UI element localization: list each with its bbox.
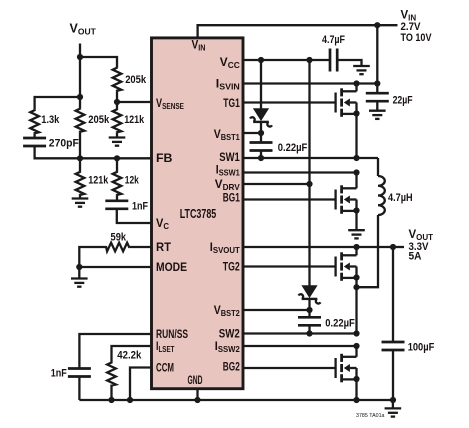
wire SW1 (244, 157, 378, 159)
wire 121k to ground (116, 102, 118, 109)
wire to 205k top resistor (80, 57, 117, 67)
svg-text:205k: 205k (125, 74, 147, 86)
capacitor C3 1nF (lower) (68, 369, 91, 377)
wire stub to VOUT label (393, 246, 404, 248)
wire RUN/SS to 1nF (79, 334, 150, 369)
resistor R6 12k (113, 171, 122, 195)
node MODE junction (76, 264, 82, 270)
node VDRV junction (306, 181, 312, 187)
node ISVIN-Q1 junction (353, 80, 359, 86)
svg-text:TG1: TG1 (223, 96, 240, 110)
wire rail end to ground (392, 400, 394, 408)
wire ISSW2 (244, 345, 357, 347)
node VOUT/205k junction (77, 54, 83, 60)
node 100uF rail junction (390, 397, 396, 403)
node CCM rail junction (127, 397, 133, 403)
node VCC-D1 junction (258, 57, 264, 63)
node SW2-C7 junction (306, 330, 312, 336)
svg-text:1.3k: 1.3k (41, 114, 60, 126)
wire 59k left to MODE node (79, 247, 105, 267)
capacitor C7 0.22uF (298, 317, 321, 325)
wire BG2 to gate (244, 367, 336, 369)
svg-text:22µF: 22µF (393, 95, 413, 107)
inductor L1 4.7uH (378, 176, 385, 215)
wire Q3 drain down to SW2 (355, 278, 357, 334)
wire 42.2k to rail (110, 386, 112, 400)
wire SW2 (244, 332, 357, 334)
svg-text:RT: RT (156, 240, 172, 254)
svg-text:3785 TA01a: 3785 TA01a (356, 413, 385, 419)
wire top rail stub to VIN label (377, 24, 397, 26)
node divider mid junction (77, 94, 83, 100)
capacitor C6 0.22uF (250, 143, 273, 151)
wire ISVOUT (244, 246, 393, 248)
wire MODE to IC (79, 266, 150, 268)
ground below 121k lower (72, 199, 89, 207)
wire ISSW1 (244, 171, 357, 173)
node VSENSE junction (114, 99, 120, 105)
wire 22uF to ground (376, 101, 378, 111)
wire MODE node to ground (78, 267, 80, 279)
svg-text:TO 10V: TO 10V (401, 32, 433, 44)
ground for 4.7uF (353, 66, 370, 74)
wire 4.7uF to ground (337, 60, 361, 66)
resistor R3 1.3k (30, 110, 39, 134)
wire VOUT down to divider (79, 44, 81, 98)
capacitor C8 100uF (382, 342, 405, 350)
transistor Q2 BG1 NMOS (336, 185, 360, 214)
wire FB to IC (80, 157, 150, 159)
wire VCC column down to D2 (308, 60, 310, 286)
svg-text:42.2k: 42.2k (117, 350, 142, 362)
wire CCM to rail (130, 368, 150, 401)
capacitor C5 22uF (366, 93, 389, 101)
wire node to 1.3k branch (35, 97, 80, 110)
wire VCC to 4.7uF (244, 59, 330, 61)
wire VIN rail vertical (376, 25, 378, 93)
node GND pin rail junction (194, 397, 200, 403)
resistor R7 59k (horizontal) (106, 243, 130, 252)
node ISVOUT-VOUT rail junction (390, 244, 396, 250)
wire VBST2 to node (244, 309, 310, 311)
wire 0.22uF to SW2 (308, 325, 310, 333)
wire 100uF to rail (392, 350, 394, 400)
wire 0.22uF to SW1 (260, 151, 262, 159)
svg-text:BG1: BG1 (223, 191, 240, 205)
node SW1-C6 junction (258, 155, 264, 161)
ground below 121k upper (109, 138, 126, 146)
transistor Q1 TG1 PMOS (336, 88, 360, 117)
resistor R2 121k (upper) (113, 109, 122, 133)
svg-text:121k: 121k (124, 114, 145, 126)
resistor R8 42.2k (107, 362, 116, 386)
wire Q1 drain down to SW1 (355, 114, 357, 158)
svg-text:SW2: SW2 (219, 327, 240, 341)
svg-text:TG2: TG2 (223, 260, 240, 274)
node VBST1 junction (258, 130, 264, 136)
wire bottom ground rail (79, 399, 393, 401)
node VIN rail top junction (374, 22, 380, 28)
wire VDRV (244, 183, 310, 185)
wire SW1 corner to inductor (377, 158, 379, 176)
wire RT to 59k (130, 246, 151, 248)
wire VBST1 to node (244, 132, 261, 134)
capacitor C2 1nF (upper) (105, 201, 128, 209)
node FB-121k junction (114, 155, 120, 161)
svg-text:FB: FB (156, 151, 173, 165)
svg-text:VOUT: VOUT (70, 22, 97, 37)
wire TG2 to gate (244, 265, 336, 267)
node ISVIN-VIN rail junction (374, 80, 380, 86)
node ISSW1 junction (353, 169, 359, 175)
svg-text:0.22µF: 0.22µF (278, 142, 308, 154)
wire inductor down to TG2 drain (357, 215, 379, 287)
svg-text:59k: 59k (111, 232, 127, 244)
wire Q4 source down to rail (355, 379, 357, 400)
wire 121k lower ends (79, 158, 81, 171)
node ISSW2 junction (353, 343, 359, 349)
wire 205k to VSENSE node (116, 91, 118, 102)
svg-text:121k: 121k (88, 175, 109, 187)
wire VIN pin to top rail (198, 25, 378, 36)
resistor R1 205k (top) (113, 67, 122, 91)
resistor R4 205k (left) (76, 108, 85, 132)
svg-text:1nF: 1nF (132, 201, 148, 213)
ground bottom right (385, 408, 402, 416)
svg-text:5A: 5A (409, 251, 422, 263)
svg-text:12k: 12k (125, 175, 140, 187)
svg-text:4.7µF: 4.7µF (322, 34, 345, 46)
wire 205k left ends (79, 97, 81, 108)
capacitor C4 4.7uF (330, 49, 337, 72)
svg-text:1nF: 1nF (51, 368, 67, 380)
wire 270pF to FB wire (35, 146, 80, 158)
wire Q3 source up to ISVOUT (355, 247, 357, 255)
node Q4 rail junction (353, 397, 359, 403)
svg-text:CCM: CCM (156, 361, 174, 375)
node VCC-D2 junction (306, 57, 312, 63)
ground below MODE node (71, 279, 88, 287)
svg-text:SW1: SW1 (219, 150, 240, 164)
node SW1-Q1 junction (353, 155, 359, 161)
transistor Q3 TG2 PMOS (336, 252, 360, 280)
wire GND pin to rail (196, 389, 198, 400)
node SW2-Q3 junction (353, 330, 359, 336)
node FB-205k junction (77, 155, 83, 161)
node ISVOUT-Q3 junction (353, 244, 359, 250)
svg-text:205k: 205k (88, 114, 110, 126)
diode D1 schottky vertical wire (260, 60, 262, 109)
svg-text:GND: GND (188, 373, 203, 387)
svg-text:4.7µH: 4.7µH (388, 192, 413, 204)
svg-text:LTC3785: LTC3785 (180, 206, 217, 221)
wire Q4 drain up to ISSW2 (355, 346, 357, 357)
wire ISVIN to VIN rail (244, 82, 378, 84)
diode D1 schottky (250, 109, 272, 127)
wire ILSET to 42.2k (112, 346, 151, 362)
svg-text:BG2: BG2 (223, 360, 240, 374)
wire VSENSE to IC (117, 101, 150, 103)
node 42.2k rail junction (108, 397, 114, 403)
wire 1nF to rail (78, 377, 80, 401)
svg-text:0.22µF: 0.22µF (325, 317, 355, 329)
wire TG1 to gate (244, 101, 336, 103)
svg-text:2.7V: 2.7V (401, 21, 422, 33)
node VBST2 junction (306, 307, 312, 313)
wire Q2 source to ground (355, 211, 357, 230)
wire 1.3k to 270pF (33, 134, 35, 138)
svg-text:MODE: MODE (156, 260, 187, 274)
transistor Q4 BG2 NMOS (336, 354, 360, 383)
op-amp U1 LTC3785 IC body (152, 38, 244, 389)
resistor R5 121k (lower) (76, 171, 85, 195)
wire Q2 drain up to ISSW1 (355, 173, 357, 189)
wire D1 cathode to VBST1 (260, 122, 262, 143)
wire 12k ends (116, 158, 118, 171)
wire Q1 source up to ISVIN (355, 84, 357, 92)
ground below 22uF (369, 111, 386, 119)
diode D2 schottky (299, 286, 321, 304)
svg-text:100µF: 100µF (408, 341, 435, 353)
wire BG1 to gate (244, 198, 336, 200)
svg-text:270pF: 270pF (49, 137, 79, 149)
wire 1nF to VC pin (117, 209, 151, 223)
wire D2 cathode to VBST2 (308, 299, 310, 317)
svg-text:RUN/SS: RUN/SS (156, 327, 188, 341)
capacitor C1 270pF (23, 138, 46, 146)
wire VOUT rail down to 100uF (392, 247, 394, 342)
node inductor-Q3 junction (353, 284, 359, 290)
ground below Q2 (348, 230, 365, 238)
